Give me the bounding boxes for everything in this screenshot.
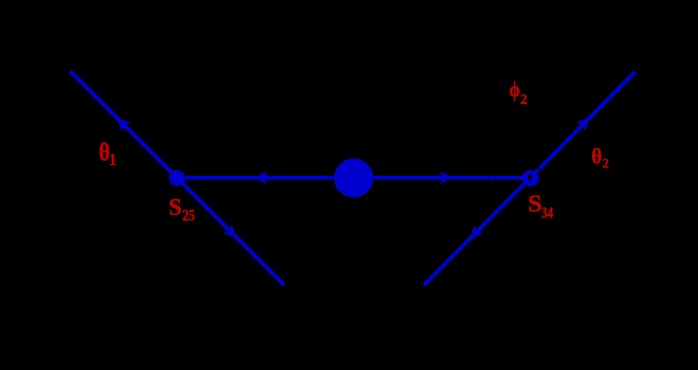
node: small hole in right vertex <box>527 174 533 181</box>
label S_34 subscript 34 <box>541 206 553 223</box>
label S_34 <box>528 191 542 218</box>
svg-text:S: S <box>169 194 182 221</box>
wire: horizontal propagator line <box>177 176 531 180</box>
label S_25 <box>169 194 182 221</box>
svg-text:2: 2 <box>602 157 608 171</box>
arrow on left half of propagator (points left) <box>256 172 267 184</box>
arrow on lower-left line (points down-right) <box>223 225 239 241</box>
arrow on upper-left line (points up-left) <box>114 115 130 131</box>
svg-text:S: S <box>528 191 542 218</box>
svg-text:34: 34 <box>541 206 553 223</box>
svg-text:25: 25 <box>182 207 195 225</box>
wire: outgoing line upper-right <box>531 72 635 177</box>
arrow on right half of propagator (points right) <box>440 172 451 184</box>
label theta_2 subscript 2 <box>602 157 608 171</box>
label phi_2 subscript 2 <box>520 92 527 108</box>
svg-text:θ: θ <box>591 144 602 169</box>
arrow on lower-right line (points down-left) <box>467 225 483 241</box>
label theta_2 <box>591 144 602 169</box>
label S_25 subscript 25 <box>182 207 195 225</box>
node: central blob (exchanged system) <box>334 158 373 197</box>
svg-text:ϕ: ϕ <box>509 79 520 102</box>
node: small notch in upper-right line at vertex <box>536 166 540 170</box>
label phi_2 <box>509 79 520 102</box>
label theta_1 <box>99 139 110 167</box>
svg-text:2: 2 <box>520 92 527 108</box>
wire: outgoing lepton line lower-left <box>177 178 284 285</box>
label theta_1 subscript 1 <box>109 151 117 169</box>
arrow on upper-right line (points up-right) <box>577 115 593 131</box>
svg-text:1: 1 <box>109 151 117 169</box>
wire: incoming lepton line upper-left <box>70 71 177 178</box>
node: right vertex S34 dot <box>522 170 538 186</box>
node: left vertex dot S25 <box>169 170 185 186</box>
wire: incoming line lower-right <box>424 177 531 285</box>
node: tiny dark tick in propagator line <box>495 178 496 180</box>
